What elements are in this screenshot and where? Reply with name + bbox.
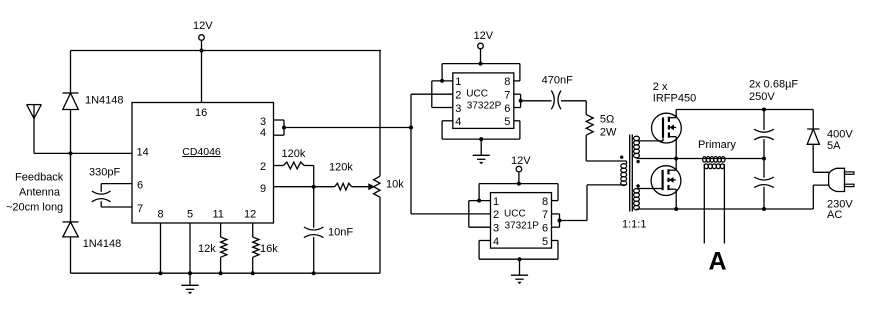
svg-text:6: 6 (137, 180, 143, 192)
wire U3 pin 8 stub (552, 200, 559, 202)
wire pin3/4 to drivers (284, 127, 411, 129)
junction U3 output (558, 219, 562, 223)
svg-text:10nF: 10nF (328, 227, 353, 239)
inductor output primary winding (upper row) (703, 157, 707, 163)
svg-text:~20cm long: ~20cm long (6, 202, 63, 214)
junction 12V rail / pin16 feed (200, 49, 204, 53)
wire pin 3 stub (432, 107, 453, 109)
svg-text:1N4148: 1N4148 (85, 95, 124, 107)
svg-text:37321P: 37321P (505, 220, 540, 231)
wire diode to plug (812, 144, 814, 172)
wire plug bottom to -bus (813, 184, 829, 186)
wire Q2 drain to midpoint (675, 159, 677, 171)
svg-text:12k: 12k (198, 243, 216, 255)
node 12V supply terminal (CD4046) (199, 35, 205, 41)
junction U3 pin 1 (477, 199, 481, 203)
wire Q2 gate lead (662, 189, 664, 191)
ground U2 (473, 154, 490, 156)
wire U3 output to transformer (560, 220, 588, 222)
wire U3 pin 3 stub (469, 226, 491, 228)
svg-text:1: 1 (455, 76, 461, 88)
svg-text:Feedback: Feedback (15, 172, 64, 184)
svg-text:5: 5 (187, 209, 193, 221)
svg-text:4: 4 (260, 127, 266, 139)
junction U2 ground (479, 137, 483, 141)
svg-text:12V: 12V (511, 155, 531, 167)
svg-text:250V: 250V (749, 91, 775, 103)
transformer T1 secondary 1 winding (634, 136, 640, 140)
wire pin 5 stub (514, 120, 520, 122)
wire pin 8 stub (514, 80, 520, 82)
capacitor C5 0.68uF (lower) (763, 159, 765, 178)
junction caps top (762, 108, 766, 112)
transformer T1 core (629, 135, 631, 212)
transformer T1 secondary 2 winding (634, 189, 640, 193)
svg-text:11: 11 (213, 209, 224, 221)
svg-text:5: 5 (542, 236, 548, 248)
svg-text:6: 6 (504, 103, 510, 115)
node phase dot primary (620, 156, 623, 159)
svg-text:Antenna: Antenna (19, 187, 61, 199)
svg-text:120k: 120k (282, 148, 306, 160)
wire U2 ground bottom bracket (442, 138, 520, 140)
op-amp 37321P IC body (491, 193, 552, 249)
wire U3 pins 7-6 output bracket (552, 213, 560, 215)
svg-text:470nF: 470nF (542, 75, 573, 87)
svg-text:CD4046: CD4046 (182, 146, 221, 158)
wire U3 pin 2 input (411, 213, 491, 215)
svg-text:2: 2 (455, 90, 461, 102)
wire node to pin 14 (71, 152, 133, 154)
wire Q1 source to midpoint (675, 137, 677, 159)
wire pins 1-3 bracket (431, 81, 433, 108)
diode D3 400V 5A (807, 128, 819, 130)
junction pin 1 (440, 79, 444, 83)
wire pin 5 to ground (189, 223, 191, 273)
junction U3 ground (518, 257, 522, 261)
wire secondary1 top to upper gate (637, 140, 664, 142)
svg-text:6: 6 (542, 223, 548, 235)
svg-text:400V: 400V (827, 129, 853, 141)
svg-text:4: 4 (493, 236, 499, 248)
junction half-bridge midpoint (674, 157, 678, 161)
wire +bus top rail (676, 109, 813, 111)
op-amp 37322P IC body (453, 73, 514, 128)
svg-text:16k: 16k (260, 243, 278, 255)
svg-text:7: 7 (504, 90, 510, 102)
svg-text:10k: 10k (386, 179, 404, 191)
svg-text:UCC: UCC (466, 89, 488, 100)
svg-text:Primary: Primary (698, 139, 736, 151)
svg-text:UCC: UCC (504, 208, 526, 219)
svg-text:8: 8 (158, 209, 164, 221)
wiper arrow of potentiometer (368, 183, 375, 190)
wire top rail to diode (812, 110, 814, 130)
wire pin 16 feed (201, 51, 203, 103)
wire coil leg A2 (723, 164, 725, 244)
wire U3 VDD top bracket (479, 183, 558, 185)
node phase dot secondary 1 (636, 160, 639, 163)
ground main (189, 273, 191, 285)
svg-text:3: 3 (493, 223, 499, 235)
wire coil leg A1 (703, 164, 705, 244)
inductor coupled winding (lower row) (704, 164, 708, 169)
transistor Q1 IRFP450 (upper) (652, 113, 682, 143)
wire pin 9 (274, 186, 335, 188)
plug mains 230V (829, 168, 845, 191)
svg-text:2x 0.68µF: 2x 0.68µF (749, 79, 798, 91)
svg-text:9: 9 (260, 183, 266, 195)
ground U3 (511, 274, 528, 276)
transformer T1 primary winding (626, 161, 628, 164)
wire Q2 source to -bus (675, 189, 677, 209)
wire U2 VDD top bracket (442, 63, 520, 65)
junction antenna node (69, 151, 73, 155)
wire U3 pin 4 stub (479, 240, 490, 242)
antenna (27, 104, 42, 106)
junction Q2 source on -bus (674, 207, 678, 211)
svg-text:A: A (709, 248, 727, 276)
wire U3 pins 1-3 bracket (468, 201, 470, 228)
svg-text:5Ω: 5Ω (600, 114, 614, 126)
svg-text:2 x: 2 x (653, 81, 668, 93)
svg-text:16: 16 (195, 107, 207, 119)
wire pins 7-6 output bracket (514, 93, 521, 95)
svg-text:8: 8 (504, 76, 510, 88)
wire secondary2 top to lower gate (637, 188, 663, 190)
junction loop filter node (312, 185, 316, 189)
node phase dot secondary 2 (636, 184, 639, 187)
svg-text:1:1:1: 1:1:1 (622, 219, 646, 231)
junction caps bottom (762, 207, 766, 211)
wire pin 2 input (411, 93, 453, 95)
svg-text:8: 8 (542, 196, 548, 208)
svg-text:12: 12 (244, 209, 256, 221)
svg-text:2: 2 (493, 209, 499, 221)
wire Q1 gate lead (662, 138, 664, 141)
diode D2 1N4148 (lower) (70, 153, 72, 222)
svg-text:3: 3 (455, 103, 461, 115)
svg-text:5: 5 (504, 116, 510, 128)
wire pin 1 stub (432, 80, 453, 82)
wire pins 3-4 bracket (274, 119, 285, 121)
svg-text:2W: 2W (600, 126, 617, 138)
wire GDT primary top lead (586, 160, 626, 162)
wire Q1 drain to +bus (675, 110, 677, 118)
transistor Q2 IRFP450 (lower) (651, 166, 681, 196)
wire U2 output (521, 100, 552, 102)
svg-text:7: 7 (137, 203, 143, 215)
wire pin 8 to ground (160, 223, 162, 273)
svg-text:1: 1 (493, 196, 499, 208)
svg-text:12V: 12V (193, 20, 213, 32)
svg-text:AC: AC (827, 209, 842, 221)
svg-text:37322P: 37322P (467, 101, 502, 112)
svg-text:12V: 12V (474, 30, 494, 42)
wire input riser (410, 94, 412, 214)
svg-text:IRFP450: IRFP450 (653, 93, 696, 105)
junction 10nF to ground rail (312, 271, 316, 275)
svg-text:7: 7 (542, 209, 548, 221)
svg-text:1N4148: 1N4148 (83, 238, 122, 250)
op-amp U1 CD4046 IC body (132, 103, 274, 224)
capacitor C4 0.68uF (upper) (763, 110, 765, 130)
junction caps midpoint (762, 157, 766, 161)
junction U2 output (519, 99, 523, 103)
svg-text:5A: 5A (827, 140, 841, 152)
wire U3 pin 5 stub (552, 240, 559, 242)
svg-text:330pF: 330pF (89, 167, 120, 179)
junction input tee (409, 126, 413, 130)
wire U3 ground bottom bracket (479, 258, 558, 260)
svg-text:120k: 120k (329, 162, 353, 174)
svg-text:14: 14 (137, 147, 149, 159)
wire secondary2 bottom / negative bus (637, 208, 814, 210)
diode D1 1N4148 (upper) (63, 92, 79, 94)
wire pin 4 stub (442, 120, 453, 122)
wire left branch upper (70, 51, 72, 94)
wire secondary1 bottom / half-bridge midpoint (637, 158, 677, 160)
wire ground bottom rail (71, 272, 381, 274)
wire antenna to node (34, 152, 71, 154)
svg-text:4: 4 (455, 116, 461, 128)
wire 12V top rail (71, 50, 382, 52)
wire U3 pin 1 stub (469, 200, 491, 202)
wire midpoint to caps (676, 158, 764, 160)
svg-text:2: 2 (260, 161, 266, 173)
junction pins 3-4 (282, 126, 286, 130)
